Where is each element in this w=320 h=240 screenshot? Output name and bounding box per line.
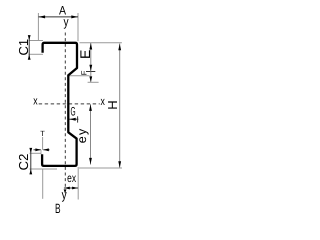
- y axis bottom arrow: [64, 189, 67, 193]
- svg-text:C1: C1: [16, 39, 31, 56]
- profile: sigma cross-section outline: [42, 43, 77, 166]
- extension line bottom lip left (B): [42, 169, 44, 199]
- arrow H bottom: [118, 161, 121, 168]
- extension line C1 bottom: [29, 53, 44, 55]
- arrow F bottom: [89, 76, 92, 82]
- dimension line C1: [28, 36, 30, 60]
- dimension line ey: [90, 104, 92, 164]
- svg-text:H: H: [105, 100, 120, 109]
- y axis dashed centerline: [64, 33, 66, 188]
- leader T: [42, 137, 44, 150]
- extension line C2 top: [30, 152, 42, 154]
- extension line A left: [37, 13, 39, 41]
- extension line flange-top right (for E and H): [80, 42, 122, 44]
- extension line F bottom: [88, 81, 99, 83]
- arrow T right: [43, 148, 49, 151]
- arrow H top: [118, 44, 121, 51]
- dimension line E: [90, 43, 92, 72]
- tick E bottom: [86, 71, 95, 73]
- arrow ey bottom: [89, 158, 92, 165]
- thickness line T left: [34, 149, 41, 151]
- arrow C2 bottom: [29, 169, 32, 174]
- arrow ey top: [89, 104, 92, 111]
- svg-text:y: y: [63, 14, 68, 29]
- extension lip up (T): [40, 150, 42, 154]
- arrow ex left: [64, 187, 70, 190]
- arrow E top: [89, 43, 92, 50]
- dimension line G: [69, 118, 78, 120]
- extension line A right: [77, 13, 79, 41]
- svg-text:C2: C2: [16, 154, 31, 171]
- extension line bottom web right (ex/B): [77, 167, 79, 200]
- arrow C1 top: [28, 35, 31, 40]
- dimension line ex: [64, 187, 78, 189]
- extension line flange-bottom right (for H): [79, 167, 122, 169]
- extension line C1 top: [29, 40, 44, 42]
- svg-text:B: B: [55, 201, 61, 216]
- extension line recess start (mid): [69, 75, 90, 77]
- svg-text:E: E: [77, 50, 93, 59]
- svg-text:T: T: [40, 129, 45, 138]
- arrow C2 top: [29, 148, 32, 153]
- svg-text:G: G: [70, 105, 75, 119]
- arrow A left: [39, 15, 46, 18]
- tick G right: [77, 116, 79, 122]
- dimension line F: [90, 72, 92, 83]
- svg-text:y: y: [62, 187, 67, 202]
- arrow A right: [71, 15, 78, 18]
- extension line C2 bottom: [30, 168, 58, 170]
- arrow E bottom: [89, 65, 92, 72]
- dimension line H: [119, 44, 121, 169]
- thickness line T right: [43, 149, 49, 151]
- arrow C1 bottom: [28, 55, 31, 60]
- dimension line A: [38, 16, 78, 18]
- arrow T left: [35, 148, 41, 151]
- arrow ex right: [72, 187, 78, 190]
- dimension line C2: [30, 148, 32, 174]
- svg-text:ex: ex: [67, 171, 76, 185]
- x axis dashed centerline: [39, 103, 100, 105]
- svg-text:F: F: [79, 70, 88, 75]
- svg-text:x: x: [33, 95, 38, 108]
- arrow G: [70, 118, 76, 121]
